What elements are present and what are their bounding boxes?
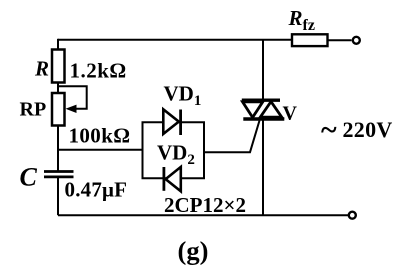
svg-text:R: R [34, 57, 49, 81]
svg-text:V: V [283, 103, 298, 125]
svg-text:1.2kΩ: 1.2kΩ [70, 59, 127, 83]
svg-text:2CP12×2: 2CP12×2 [164, 193, 246, 217]
svg-text:0.47μF: 0.47μF [65, 178, 128, 202]
svg-text:~: ~ [321, 114, 337, 147]
svg-text:220V: 220V [343, 117, 393, 142]
svg-text:100kΩ: 100kΩ [69, 124, 131, 148]
svg-text:Rfz: Rfz [288, 6, 315, 34]
svg-text:RP: RP [20, 99, 47, 121]
svg-text:VD1: VD1 [164, 82, 202, 110]
svg-text:VD2: VD2 [157, 141, 195, 169]
svg-text:(g): (g) [178, 236, 209, 266]
svg-text:C: C [20, 163, 38, 192]
